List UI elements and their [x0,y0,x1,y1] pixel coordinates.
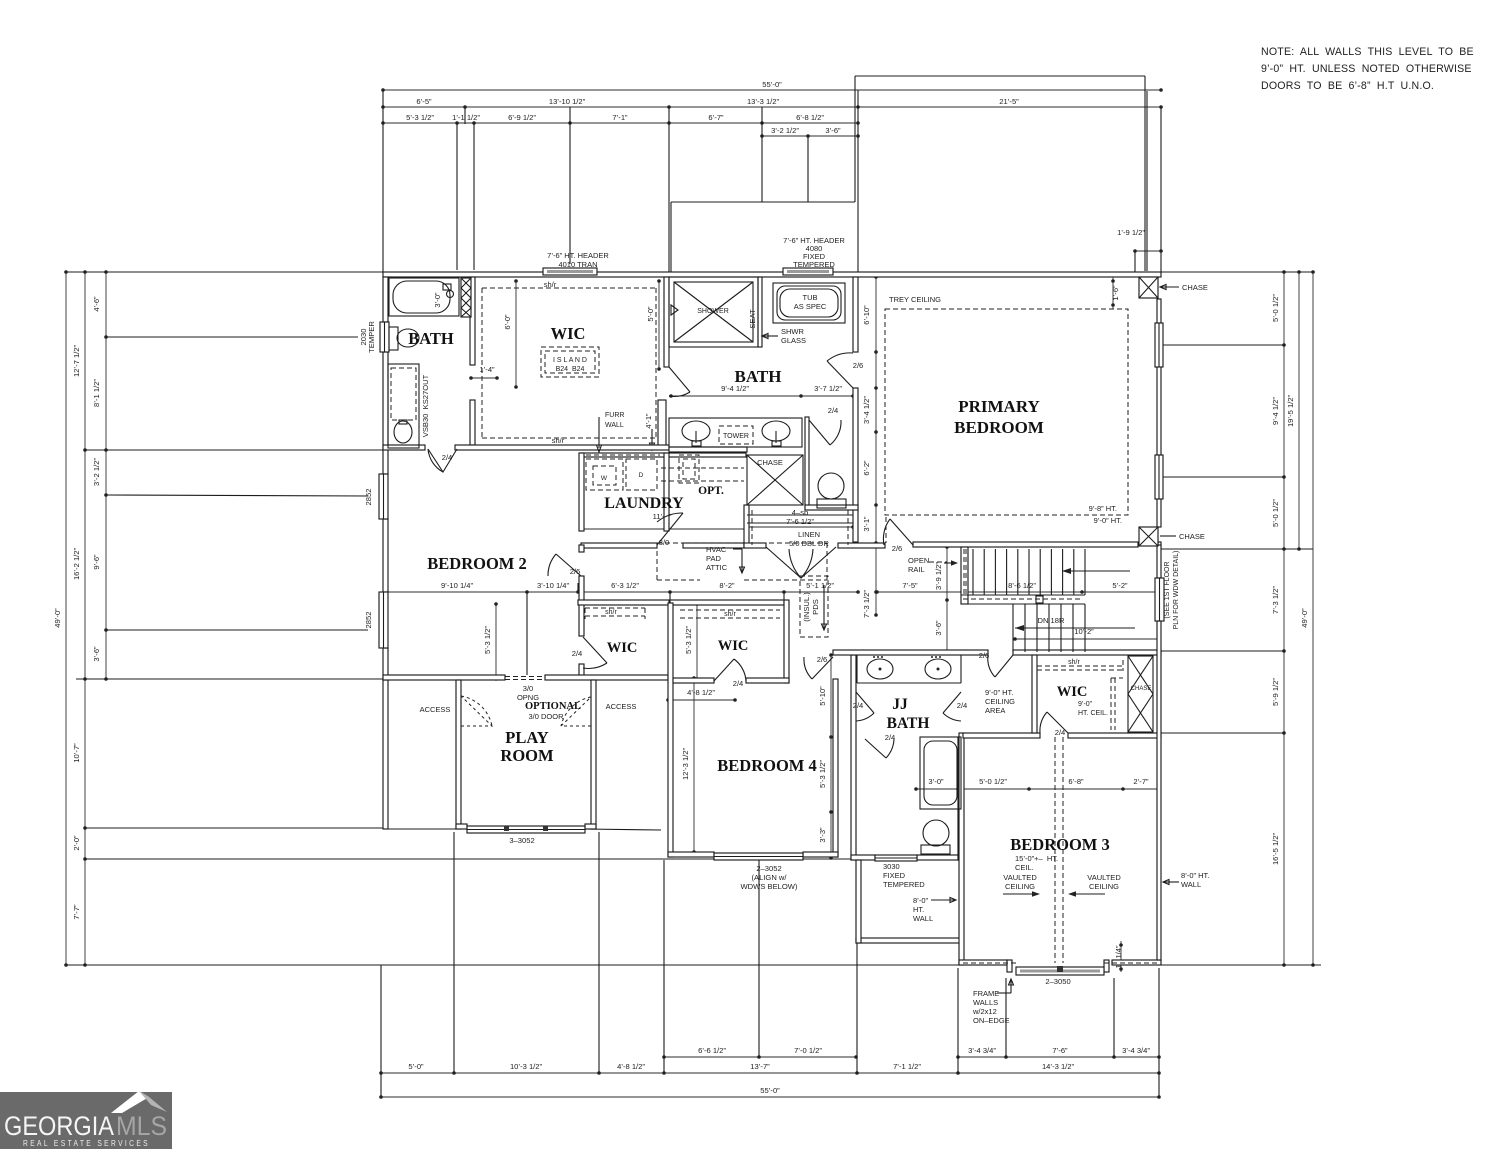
svg-text:9’-0”: 9’-0” [1078,701,1093,708]
svg-text:TEMPERED: TEMPERED [883,880,925,889]
svg-text:55’-0”: 55’-0” [762,80,782,89]
svg-text:AREA: AREA [985,706,1005,715]
wic4 right wall [784,600,789,683]
svg-text:9’-10 1/4”: 9’-10 1/4” [441,581,474,590]
svg-text:PRIMARY: PRIMARY [958,397,1040,416]
wic4 bottom wall b [746,678,789,683]
bottom dim 55ft row [379,1086,1161,1099]
svg-text:PLN FOR WDW DETAIL): PLN FOR WDW DETAIL) [1173,551,1180,630]
svg-text:5’-3 1/2”: 5’-3 1/2” [483,626,492,654]
svg-text:5’-3 1/2”: 5’-3 1/2” [406,113,434,122]
bath vanity [669,418,802,447]
dim row 55ft top [381,80,1163,92]
svg-text:7’-3 1/2”: 7’-3 1/2” [1271,586,1280,614]
svg-text:WALL: WALL [1181,880,1201,889]
svg-text:CHASE: CHASE [1179,532,1205,541]
jj bath left wall [851,655,856,860]
svg-text:VAULTED: VAULTED [1087,873,1121,882]
svg-text:WIC: WIC [551,324,586,343]
svg-text:(SEE 1ST FLOOR: (SEE 1ST FLOOR [1164,561,1171,618]
svg-text:16’-5 1/2”: 16’-5 1/2” [1271,832,1280,865]
linen dim [745,517,855,529]
left dim outer col 49ft [53,270,68,967]
svg-text:9’-4 1/2”: 9’-4 1/2” [1271,397,1280,425]
door 2/4 bath2 [428,449,457,472]
window 3050 lower right wall [1155,455,1163,499]
svg-text:4’-6”: 4’-6” [92,296,101,312]
svg-text:6’-3 1/2”: 6’-3 1/2” [611,581,639,590]
toilet bath [818,473,844,499]
svg-text:12’-7 1/2”: 12’-7 1/2” [72,344,81,377]
door 2/6 primary bath entry [827,361,853,388]
svg-text:19’-5 1/2”: 19’-5 1/2” [1286,394,1295,427]
svg-text:BEDROOM 3: BEDROOM 3 [1010,835,1109,854]
svg-text:OPT.: OPT. [698,485,724,497]
svg-text:SEAT: SEAT [748,309,757,329]
svg-text:DN 18R: DN 18R [1037,616,1065,625]
chase top right leader [1160,286,1179,288]
svg-text:12’-3 1/2”: 12’-3 1/2” [681,747,690,780]
window 3-3052 playroom [467,826,585,833]
door 2/4 jjbath left [856,692,874,713]
svg-text:TEMPER: TEMPER [367,321,376,353]
svg-text:2/4: 2/4 [828,406,839,415]
jj vanity dots [873,656,941,658]
svg-text:GEORGIA: GEORGIA [4,1111,114,1141]
frame wall left [856,860,861,943]
hatch column top wall [461,278,471,317]
svg-text:B24 B24: B24 B24 [556,366,585,373]
svg-text:2/4: 2/4 [885,733,896,742]
insul dashed box [800,576,828,637]
vaulted left arrow [1003,893,1034,895]
bedroom4 vert dim [681,676,696,854]
svg-text:3’-0”: 3’-0” [928,777,944,786]
svg-text:BEDROOM 4: BEDROOM 4 [717,756,816,775]
bedroom3 ridge dashed [1055,737,1063,963]
bedroom3 left wall [959,733,964,965]
header 4010 tran [543,268,597,275]
stairs lower flight [1012,604,1014,652]
trey ceiling dashed [885,309,1128,515]
linen double doors [766,547,836,578]
svg-text:CEILING: CEILING [1089,882,1119,891]
svg-text:TEMPERED: TEMPERED [793,260,835,269]
left dim mid col [72,270,87,967]
svg-text:FRAME: FRAME [973,989,999,998]
door 2/4 wic2 [583,637,607,663]
svg-text:OPNG: OPNG [517,693,539,702]
svg-text:TREY CEILING: TREY CEILING [889,295,941,304]
svg-text:5’-0 1/2”: 5’-0 1/2” [979,777,1007,786]
svg-text:3’-3”: 3’-3” [818,827,827,843]
vaulted right arrow [1074,893,1105,895]
jj bath vert dims [818,653,833,860]
wic4 top wall [670,600,784,605]
right exterior wall lower [1157,621,1161,960]
svg-text:ACCESS: ACCESS [606,702,637,711]
svg-text:3030: 3030 [883,862,900,871]
svg-text:4’-8 1/2”: 4’-8 1/2” [687,688,715,697]
svg-text:1’-9 1/2”: 1’-9 1/2” [1117,228,1145,237]
vanity bath2 [388,364,419,448]
wic dim 5-0 [646,279,661,371]
left wall attic section [383,680,388,829]
svg-text:PLAY: PLAY [505,728,548,747]
svg-text:6’-10”: 6’-10” [862,305,871,325]
svg-text:7’-5”: 7’-5” [902,581,918,590]
svg-text:9’-0” HT.: 9’-0” HT. [1094,516,1122,525]
svg-text:GLASS: GLASS [781,336,806,345]
svg-text:BATH: BATH [408,329,454,348]
svg-text:3/0: 3/0 [659,538,670,547]
bedroom3 top wall a [963,733,1040,738]
svg-text:6’-8”: 6’-8” [1068,777,1084,786]
window 2-3050 bedroom3 bay [1016,967,1104,975]
svg-text:3’-10 1/4”: 3’-10 1/4” [537,581,570,590]
chase top right [1139,277,1158,298]
svg-text:2/4: 2/4 [733,679,744,688]
svg-text:6’-8 1/2”: 6’-8 1/2” [796,113,824,122]
playroom bottom wall b [585,824,596,829]
svg-text:1’-6”: 1’-6” [1111,285,1120,301]
playroom left wall [456,680,461,829]
svg-text:VAULTED: VAULTED [1003,873,1037,882]
primary bath vert dims [862,275,878,618]
svg-text:2/6: 2/6 [979,651,990,660]
bedroom2 bottom wall a [383,675,505,680]
svg-text:9’-0” HT. UNLESS NOTED OTH: 9’-0” HT. UNLESS NOTED OTHERWISE [1261,63,1472,75]
svg-text:3’-6”: 3’-6” [92,646,101,662]
door 2/6 stair hall [995,655,1013,677]
bedroom3 bay jog left [1007,960,1012,972]
svg-text:HT.: HT. [913,905,924,914]
left dim inner col [92,270,108,681]
frame walls leader [997,992,1011,994]
svg-text:SHOWER: SHOWER [697,308,729,315]
svg-text:8’-1 1/2”: 8’-1 1/2” [92,379,101,407]
svg-text:sh/r: sh/r [552,436,565,445]
svg-text:7’-6 1/2”: 7’-6 1/2” [786,517,814,526]
bath shower right wall [758,277,762,347]
playroom right wall [591,680,596,829]
svg-text:BATH: BATH [887,715,930,732]
svg-text:6’-7”: 6’-7” [708,113,724,122]
svg-text:3’-6”: 3’-6” [934,620,943,636]
svg-text:13’-3 1/2”: 13’-3 1/2” [747,97,780,106]
roof outline upper right [855,75,1145,77]
svg-text:2/6: 2/6 [892,544,903,553]
door 2/4 wic3 [1047,712,1068,733]
svg-text:sh/r: sh/r [544,280,557,289]
svg-text:7’-6”: 7’-6” [1052,1046,1068,1055]
svg-text:HT. CEIL.: HT. CEIL. [1078,710,1108,717]
svg-text:3’-4 3/4”: 3’-4 3/4” [968,1046,996,1055]
svg-text:DOORS TO BE 6’-8” H.T U.N: DOORS TO BE 6’-8” H.T U.N.O. [1261,80,1434,92]
door 2/6 bedroom2 [556,554,581,576]
right exterior wall upper [1157,299,1161,527]
svg-text:14’-3 1/2”: 14’-3 1/2” [1042,1062,1075,1071]
svg-text:6’-6 1/2”: 6’-6 1/2” [698,1046,726,1055]
svg-text:8’-0” HT.: 8’-0” HT. [1181,871,1209,880]
hall bottom wall right of linen [838,543,885,548]
georgia mls logo [0,1091,172,1149]
jj bath bottom dim row [914,777,1161,791]
svg-text:D: D [639,472,644,479]
wic4 bottom wall a [673,678,714,683]
exterior top wall [383,272,1161,277]
mid interior dim row right [875,581,1161,594]
svg-text:2852: 2852 [364,489,373,506]
svg-text:7’-1”: 7’-1” [612,113,628,122]
open rail arrow [944,562,952,564]
primary bottom wall [913,542,1138,547]
right dim mid col [1286,270,1301,551]
svg-text:2/4: 2/4 [442,453,453,462]
bath primary divider wall [853,388,858,542]
dim 1-9half top right [1117,228,1163,253]
furr wall leader [598,417,600,448]
svg-text:OPEN: OPEN [908,556,929,565]
svg-text:3–3052: 3–3052 [509,836,534,845]
svg-text:5’-10”: 5’-10” [818,686,827,706]
bath wic divider wall [470,277,475,365]
wic island [541,347,599,377]
svg-text:2/4: 2/4 [1055,728,1066,737]
stair left wall [961,547,968,604]
bedroom2 right wall b [579,576,584,636]
svg-text:2’-7”: 2’-7” [1133,777,1149,786]
svg-text:49’-0”: 49’-0” [1300,608,1309,628]
svg-text:CEIL.: CEIL. [1015,863,1034,872]
playroom access arc left [461,696,492,726]
svg-text:4’-8 1/2”: 4’-8 1/2” [617,1062,645,1071]
door 2/4 wic4 [714,659,734,681]
svg-text:I S L A N D: I S L A N D [553,357,587,364]
bedroom3 bottom wall a [959,960,1007,965]
bedroom2 bottom wall b [545,675,668,680]
svg-text:3’-4 3/4”: 3’-4 3/4” [1122,1046,1150,1055]
stairs rail band [961,594,1085,596]
svg-text:15’-0”+– HT.: 15’-0”+– HT. [1015,854,1058,863]
svg-text:7’-1 1/2”: 7’-1 1/2” [893,1062,921,1071]
bath right wall upper [853,277,858,352]
stairs upper flight [972,549,974,595]
svg-text:3’-1”: 3’-1” [862,516,871,532]
bedroom4 right wall [833,679,838,857]
door 2/6 primary bedroom [890,519,913,545]
jj vanity [867,659,893,679]
svg-text:RAIL: RAIL [908,565,925,574]
opt closet dashed [679,455,699,483]
wic2 top wall [578,600,669,605]
chase bath [747,455,803,505]
svg-text:2/6: 2/6 [853,361,864,370]
svg-text:JJ: JJ [892,696,908,713]
svg-text:ATTIC: ATTIC [706,563,728,572]
svg-text:FIXED: FIXED [883,871,906,880]
chase bottom right leader [1160,535,1176,537]
svg-text:7’-0 1/2”: 7’-0 1/2” [794,1046,822,1055]
svg-text:OPTIONAL: OPTIONAL [525,701,581,712]
wic 1-4 dim [469,365,499,380]
jj tub [920,737,961,809]
svg-text:BEDROOM: BEDROOM [954,418,1044,437]
bedroom3 top wall b [1068,733,1161,738]
svg-text:9’-6”: 9’-6” [92,554,101,570]
stair hall bottom wall right [1013,650,1161,655]
window 3050 upper right wall [1155,323,1163,367]
svg-text:6’-0”: 6’-0” [503,314,512,330]
svg-text:13’-7”: 13’-7” [750,1062,770,1071]
svg-text:5’-3 1/2”: 5’-3 1/2” [684,626,693,654]
ext line 1-9half [1134,251,1136,272]
window 2030 left wall [380,322,389,352]
stairs left dashed rail [964,549,966,595]
bath vanity dim [669,384,855,398]
svg-text:3/0 DOOR: 3/0 DOOR [528,712,564,721]
svg-text:3/0: 3/0 [523,684,533,693]
svg-text:7’-3 1/2”: 7’-3 1/2” [862,590,871,618]
dim row2 top [381,97,1163,109]
wall8 left arrow [931,899,956,901]
window 2852 lower left wall [379,592,388,648]
svg-text:6’-2”: 6’-2” [862,460,871,476]
svg-text:2–3052: 2–3052 [756,864,781,873]
insul arrow [823,585,825,630]
right exterior wall mid [1157,545,1161,578]
linen shelves [747,514,853,516]
laundry top wall [581,453,746,457]
svg-text:CHASE: CHASE [1131,686,1152,692]
svg-text:9’-0” HT.: 9’-0” HT. [985,688,1013,697]
trey mini dim [1112,277,1114,309]
svg-text:5’-0 1/2”: 5’-0 1/2” [1271,499,1280,527]
bath wic bottom wall [455,445,669,450]
svg-text:WALL: WALL [913,914,933,923]
wall8 right arrow [1163,881,1179,883]
svg-text:WDWS BELOW): WDWS BELOW) [741,882,798,891]
svg-text:10’-3 1/2”: 10’-3 1/2” [510,1062,543,1071]
bottom dim partial row a [662,1046,858,1059]
svg-text:2852: 2852 [364,612,373,629]
svg-text:BEDROOM 2: BEDROOM 2 [427,554,526,573]
svg-text:4’-1”: 4’-1” [644,413,653,429]
shower primary [669,277,758,347]
hvac dashed box [657,543,827,580]
svg-text:sh/r: sh/r [605,609,617,616]
playroom opt door dashes [505,677,545,680]
svg-text:10’-7”: 10’-7” [72,743,81,763]
tower cabinet dashed [719,426,753,444]
wic3 left wall [1032,655,1037,733]
tub primary [773,283,845,323]
svg-text:2/4: 2/4 [957,701,968,710]
bedroom4 bottom wall b [803,852,838,857]
door 2/6 bedroom4 [812,657,833,679]
svg-text:WIC: WIC [607,640,638,656]
svg-text:7’-6” HT. HEADER: 7’-6” HT. HEADER [547,251,609,260]
svg-text:AS SPEC: AS SPEC [794,302,827,311]
jj toilet [923,820,949,846]
door 3/0 laundry [657,513,683,545]
bath wic bottom wall left [383,445,425,450]
svg-text:3’-2 1/2”: 3’-2 1/2” [92,458,101,486]
bedroom4 bottom wall a [668,852,714,857]
laundry width dim [579,512,748,531]
svg-text:TUB: TUB [803,293,818,302]
svg-text:sh/r: sh/r [724,611,736,618]
svg-text:TOWER: TOWER [723,433,749,440]
stairs arrow upper [1062,570,1130,572]
dim row3 top [381,113,860,125]
primary bottom wall chase stub [1158,542,1161,547]
svg-text:5’-2”: 5’-2” [1112,581,1128,590]
svg-text:ACCESS: ACCESS [420,705,451,714]
svg-text:3’-4 1/2”: 3’-4 1/2” [862,396,871,424]
svg-text:3’-7 1/2”: 3’-7 1/2” [814,384,842,393]
roof line below left [388,828,467,830]
bedroom2 right wall a [579,545,584,552]
svg-text:CHASE: CHASE [757,458,783,467]
wic2 shelf [585,608,645,619]
svg-text:5’-1 1/2”: 5’-1 1/2” [806,581,834,590]
chase wic3 [1128,656,1153,732]
svg-text:LAUNDRY: LAUNDRY [604,495,684,512]
right dim inner col [1271,270,1286,967]
wic right wall lower [658,400,666,449]
stairs vert dims [934,545,949,655]
door 2/6 wic to bath hall [669,367,690,392]
mid interior dim row [384,581,860,594]
left exterior wall bedroom2 [383,648,388,680]
jj vanity counter [856,655,858,683]
bedroom4 wic dim [666,688,737,702]
wic shelf dashed [482,288,656,438]
svg-text:5’-0”: 5’-0” [408,1062,424,1071]
svg-text:HVAC: HVAC [706,545,727,554]
chase bottom right [1139,527,1158,546]
mid dim extensions [526,592,528,675]
svg-text:ROOM: ROOM [500,746,554,765]
bath vanity bottom wall [669,447,747,452]
svg-text:6’-5”: 6’-5” [416,97,432,106]
svg-text:BATH: BATH [735,367,782,386]
svg-text:PAD: PAD [706,554,721,563]
laundry bottom wall right [683,543,744,548]
door 2/4 jjbath right [943,692,961,713]
tub bath2 [389,278,459,316]
bottom dim main row [379,1062,1161,1075]
svg-text:(ALIGN w/: (ALIGN w/ [751,873,787,882]
svg-text:2/4: 2/4 [853,701,864,710]
svg-text:55’-0”: 55’-0” [760,1086,780,1095]
svg-text:NOTE: ALL WALLS THIS LEVEL: NOTE: ALL WALLS THIS LEVEL TO BE [1261,46,1474,58]
wic3 shelf [1037,660,1123,671]
svg-text:16’-2 1/2”: 16’-2 1/2” [72,547,81,580]
wic island dim 6-0 [503,279,518,389]
toilet room left wall [805,417,809,508]
left exterior wall upper [383,277,388,322]
svg-text:VSB30 KS27OUT: VSB30 KS27OUT [421,374,430,437]
svg-text:WALL: WALL [605,422,624,429]
trey break dashed [885,517,887,543]
bath wic divider wall lower [470,400,475,445]
svg-text:WIC: WIC [718,638,749,654]
toilet room bottom wall [805,505,858,510]
svg-text:8’-6 1/2”: 8’-6 1/2” [1008,581,1036,590]
svg-text:8’-0”: 8’-0” [913,896,929,905]
